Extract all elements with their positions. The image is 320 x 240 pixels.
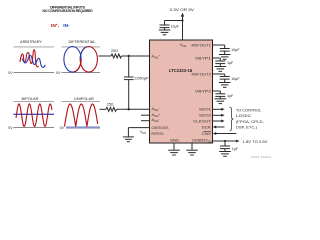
svg-text:DSP, ETC.): DSP, ETC.) [236,126,258,130]
svg-text:GND: GND [170,138,179,142]
svg-text:LTC2323-16: LTC2323-16 [169,68,193,73]
svg-text:2323 TA01a: 2323 TA01a [251,155,272,159]
svg-text:VBYP2: VBYP2 [195,88,212,93]
svg-text:TO CONTROL: TO CONTROL [236,108,261,112]
svg-text:10µF: 10µF [171,25,180,29]
svg-text:0V: 0V [56,71,61,75]
svg-text:REFOUT2: REFOUT2 [192,71,212,76]
svg-text:OVDD: OVDD [202,138,211,143]
svg-text:1.8V TO 2.5V: 1.8V TO 2.5V [243,140,269,144]
svg-text:CLKOUT: CLKOUT [193,118,212,123]
svg-text:IN+,: IN+, [51,23,60,29]
svg-text:(FPGA, CPLD,: (FPGA, CPLD, [236,120,264,124]
svg-text:1µF: 1µF [227,61,234,65]
svg-text:CMOS/LVDS: CMOS/LVDS [152,126,169,130]
svg-text:DIFFERENTIAL: DIFFERENTIAL [69,39,97,44]
svg-text:25Ω: 25Ω [107,103,114,107]
svg-text:1µF: 1µF [232,147,239,151]
svg-text:NO CONFIGURATION REQUIRED: NO CONFIGURATION REQUIRED [43,9,94,13]
svg-text:ARBITRARY: ARBITRARY [20,39,42,44]
svg-text:VBYP1: VBYP1 [195,55,212,60]
svg-text:SDO2: SDO2 [199,113,212,118]
svg-text:10µF: 10µF [231,48,240,52]
svg-text:SDO1: SDO1 [199,107,212,112]
svg-text:0V: 0V [8,71,13,75]
svg-text:0V: 0V [60,126,65,130]
svg-text:25Ω: 25Ω [111,49,118,53]
svg-text:SCK: SCK [202,125,212,130]
svg-text:BIPOLAR: BIPOLAR [22,96,39,101]
svg-text:3.3V OR 5V: 3.3V OR 5V [169,7,194,12]
svg-text:REFRTN: REFRTN [152,132,164,136]
svg-text:1µF: 1µF [227,94,234,98]
svg-text:REFOUT1: REFOUT1 [192,42,212,47]
svg-text:LOGIC: LOGIC [236,114,252,118]
svg-text:UNIPOLAR: UNIPOLAR [74,96,94,101]
svg-text:VDD: VDD [180,42,187,48]
svg-text:2200pF: 2200pF [134,76,149,80]
svg-text:VDD: VDD [140,130,146,135]
svg-text:0V: 0V [8,126,13,130]
svg-text:10µF: 10µF [231,77,240,81]
